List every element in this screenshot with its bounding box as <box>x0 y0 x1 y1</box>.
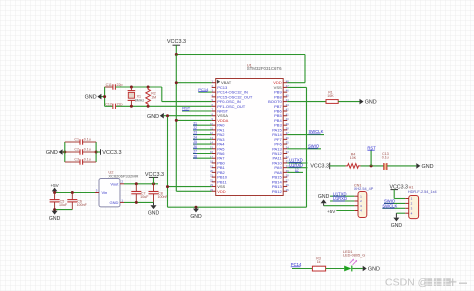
svg-text:100nF: 100nF <box>158 195 169 199</box>
svg-text:PC14: PC14 <box>198 87 209 92</box>
svg-text:SWCLK: SWCLK <box>382 203 397 208</box>
ground output caps <box>153 202 155 205</box>
svg-text:XH2.54_4P: XH2.54_4P <box>354 187 374 191</box>
node SWCLK H1 <box>382 207 405 209</box>
node U1RXD <box>287 167 307 169</box>
ground LED <box>363 266 367 272</box>
ground cap bank <box>59 149 63 155</box>
node U1TXD CN1 <box>330 195 354 197</box>
svg-text:GND: GND <box>368 267 380 273</box>
svg-text:VDD: VDD <box>217 189 226 194</box>
wire crystal top to PF0 <box>115 86 161 88</box>
connector CN1 XH2.54_4P <box>358 192 367 218</box>
regulator U2 XC6206P332MR <box>99 179 120 207</box>
svg-text:C3: C3 <box>74 157 79 161</box>
svg-text:VCC3.3: VCC3.3 <box>102 150 121 156</box>
wires PA0-PA7 stub labels <box>193 124 212 126</box>
svg-text:1k: 1k <box>317 260 321 264</box>
wire crystal left rail <box>104 87 106 106</box>
ground input caps <box>54 210 56 211</box>
svg-text:24: 24 <box>193 135 197 139</box>
svg-text:25: 25 <box>193 140 197 144</box>
svg-text:GND: GND <box>147 114 159 120</box>
svg-text:GND: GND <box>190 214 202 220</box>
wire GND net <box>164 115 212 117</box>
node SWIO <box>287 148 321 150</box>
node VCC3.3 cap bank <box>96 151 100 153</box>
resistor R1 10K <box>326 100 338 104</box>
svg-text:PB12: PB12 <box>272 189 283 194</box>
svg-text:GND: GND <box>318 194 330 200</box>
wire cap bank rails <box>64 142 66 162</box>
wire VCC3.3 top rail <box>176 54 305 56</box>
svg-text:10K: 10K <box>350 156 357 160</box>
svg-text:8MHz: 8MHz <box>135 98 145 102</box>
ground below IC <box>195 206 198 209</box>
svg-text:+5V: +5V <box>327 209 336 214</box>
svg-text:XC6206P332MR: XC6206P332MR <box>108 173 138 178</box>
wire crystal bottom row / PF1 <box>105 105 212 107</box>
node RST at NRST <box>182 110 212 112</box>
capacitor C7 10uF <box>135 184 137 192</box>
node RST label <box>370 164 373 167</box>
ground BOOT0 <box>360 99 364 105</box>
svg-text:H1: H1 <box>409 186 414 190</box>
svg-text:10uF: 10uF <box>59 203 68 207</box>
svg-text:27: 27 <box>193 150 197 154</box>
ground reset <box>416 163 420 169</box>
connector H1 HDR-F-2.54_1x4 <box>409 196 419 219</box>
wire VCC3.3 vertical to VBAT/VDDA/VDD <box>175 55 177 192</box>
svg-text:GND: GND <box>49 216 61 222</box>
capacitor C1 0.1u <box>65 141 80 143</box>
ground CN1 <box>324 205 355 207</box>
wire crystal top row <box>105 86 112 88</box>
svg-text:GND: GND <box>422 164 434 170</box>
svg-text:C1: C1 <box>74 137 79 141</box>
svg-text:STM32F031C6T6: STM32F031C6T6 <box>247 66 282 71</box>
svg-text:21: 21 <box>193 121 197 125</box>
svg-text:1?: 1? <box>295 168 299 172</box>
svg-text:26: 26 <box>193 145 197 149</box>
wire BOOT0 <box>287 101 326 103</box>
svg-text:C11: C11 <box>106 83 112 87</box>
svg-text:GND: GND <box>148 211 160 217</box>
svg-text:C12: C12 <box>105 103 112 107</box>
node U1TXD <box>287 162 307 164</box>
svg-text:RST: RST <box>367 145 376 150</box>
svg-text:0.1u: 0.1u <box>84 147 91 151</box>
node PC14 label <box>198 91 211 93</box>
svg-text:28: 28 <box>193 154 197 158</box>
svg-text:VCC3.3: VCC3.3 <box>310 163 329 169</box>
svg-text:GND: GND <box>365 100 377 106</box>
node PC14 LED <box>292 268 312 270</box>
capacitor C8 100nF <box>153 184 155 192</box>
IC pins right (25-48) <box>283 82 287 84</box>
svg-text:GND: GND <box>110 200 119 205</box>
svg-text:0.1u: 0.1u <box>382 155 389 159</box>
svg-text:1M: 1M <box>151 96 156 100</box>
svg-text:C2: C2 <box>74 147 79 151</box>
op-amp U1 STM32F031C6T6 body <box>216 79 284 196</box>
resistor R3 1k <box>312 266 325 271</box>
node SWCLK <box>287 134 324 136</box>
capacitor C12 <box>112 104 114 109</box>
svg-text:PC14: PC14 <box>291 262 302 267</box>
svg-text:RST: RST <box>182 106 191 111</box>
svg-text:0.1u: 0.1u <box>84 157 91 161</box>
svg-text:U1RXD: U1RXD <box>333 196 347 201</box>
IC pins left (1-24) <box>212 82 216 84</box>
svg-text:GND: GND <box>46 150 58 156</box>
svg-text:LED-0805_G: LED-0805_G <box>343 253 365 257</box>
capacitor C3 0.1u <box>65 161 80 163</box>
node VCC3.3 at Vout <box>149 176 158 178</box>
LED1 LED-0805_G <box>344 266 351 272</box>
svg-text:GND: GND <box>391 223 403 229</box>
node U1RXD CN1 <box>330 200 354 202</box>
svg-text:SWCLK: SWCLK <box>309 129 324 134</box>
capacitor C6 100nF <box>71 193 73 200</box>
wire VCC3.3 to H1 pin1 <box>391 189 399 191</box>
resistor R2 1M <box>147 86 150 89</box>
node PA8 stub <box>287 171 303 173</box>
wire +5V to Vin <box>55 192 95 194</box>
svg-text:SWIO: SWIO <box>308 143 320 148</box>
svg-text:HDR-F-2.54_1x4: HDR-F-2.54_1x4 <box>408 190 437 194</box>
svg-text:23: 23 <box>193 131 197 135</box>
ground H1 pin4 <box>396 212 405 214</box>
capacitor C13 0.1u <box>384 163 386 169</box>
ground VSSA <box>160 113 164 119</box>
node SWIO H1 <box>384 202 405 204</box>
wire U2 GND row <box>124 201 154 203</box>
svg-text:VCC3.3: VCC3.3 <box>167 39 186 45</box>
capacitor C5 10uF <box>54 193 56 200</box>
svg-text:CSDN @: CSDN @ <box>385 277 428 289</box>
svg-text:Vout: Vout <box>110 182 119 187</box>
capacitor C11 <box>105 86 113 88</box>
svg-text:VCC3.3: VCC3.3 <box>145 172 164 178</box>
svg-text:U1RXD: U1RXD <box>289 162 303 167</box>
svg-text:0.1u: 0.1u <box>84 137 91 141</box>
capacitor C2 0.1u <box>65 151 80 153</box>
svg-text:+5V: +5V <box>50 183 59 188</box>
wire C6 bottom to GND <box>55 209 73 211</box>
svg-text:22: 22 <box>193 126 197 130</box>
crystal X1 8MHz <box>130 86 133 89</box>
resistor R4 10K <box>346 164 361 169</box>
svg-text:10K: 10K <box>327 94 334 98</box>
node VCC3.3 top <box>173 44 181 46</box>
svg-text:22p: 22p <box>117 103 123 107</box>
wire Vout rail <box>124 183 158 185</box>
svg-text:GND: GND <box>85 95 97 101</box>
svg-text:100nF: 100nF <box>77 203 88 207</box>
svg-text:Vin: Vin <box>102 190 108 195</box>
svg-text:10uF: 10uF <box>140 195 149 199</box>
ground crystal <box>101 96 104 98</box>
